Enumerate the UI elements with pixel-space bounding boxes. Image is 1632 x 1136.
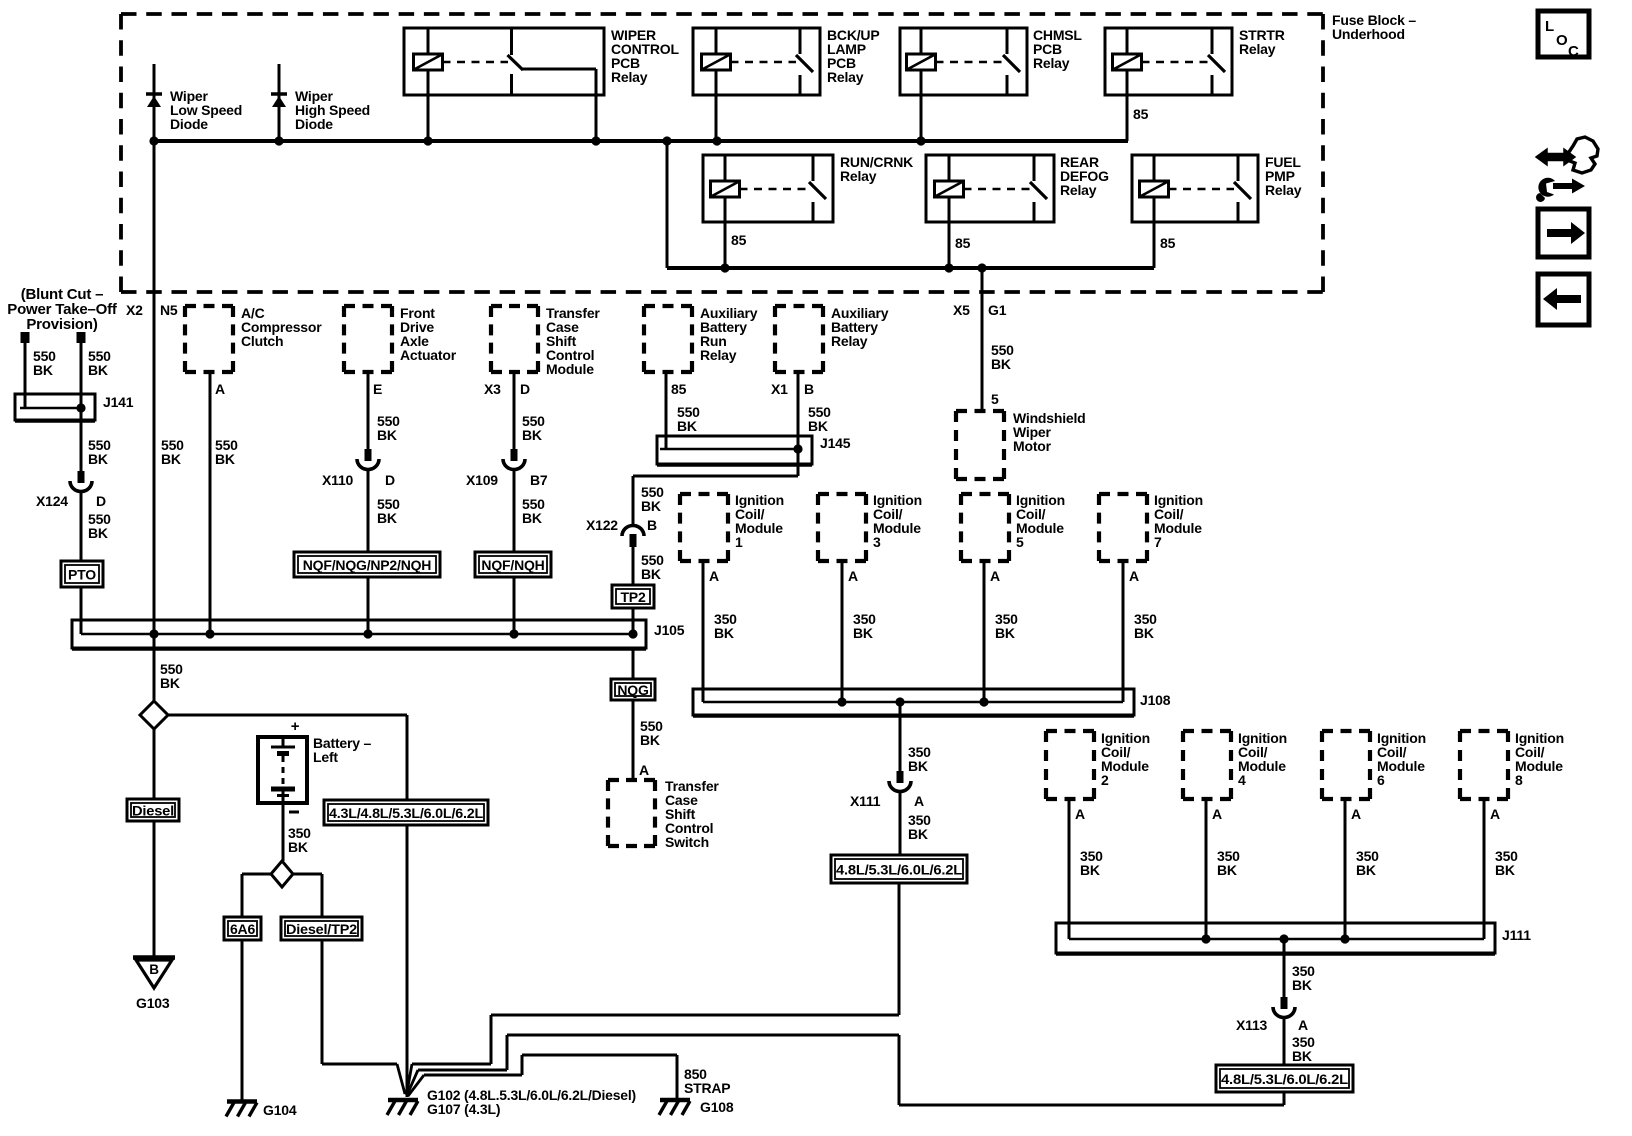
battery minus terminal label <box>289 811 299 814</box>
connector X110 pin D <box>365 449 372 461</box>
svg-text:A: A <box>1351 806 1361 822</box>
component: Ignition Coil/Module 3 (dashed) <box>818 492 866 496</box>
wire: battery to splice diamond <box>282 803 285 861</box>
svg-text:A: A <box>709 568 719 584</box>
relay RUN/CRNK: coil <box>724 155 727 182</box>
splice bus J108 <box>693 689 1134 715</box>
svg-text:STRAP: STRAP <box>684 1080 730 1096</box>
option box NQF/NQH <box>475 552 551 577</box>
junction dots on J105 <box>149 629 158 638</box>
relay FUEL PMP: coil <box>1153 155 1156 182</box>
svg-text:B7: B7 <box>530 472 548 488</box>
option box 6A6 <box>224 917 261 940</box>
wire: J108 output to X111 <box>899 702 902 771</box>
wire: wiper low speed diode drop x=154 <box>153 64 156 141</box>
wire: bck/up relay coil to bus <box>715 69 718 141</box>
svg-text:BK: BK <box>1356 862 1376 878</box>
svg-text:Actuator: Actuator <box>400 347 457 363</box>
junction dots second row bus <box>720 263 729 272</box>
icon: back arrow box <box>1538 274 1589 325</box>
option box Diesel <box>127 799 179 821</box>
wire: A/C clutch to J105 <box>209 372 212 634</box>
svg-text:Diesel/TP2: Diesel/TP2 <box>286 921 357 937</box>
component: Ignition Coil/Module 6 (dashed) <box>1322 729 1370 733</box>
relay REAR DEFOG: box <box>926 155 1054 222</box>
wire: aux battery relay through J145 <box>797 372 800 476</box>
svg-text:BK: BK <box>522 427 542 443</box>
svg-text:J105: J105 <box>654 622 685 638</box>
svg-text:6A6: 6A6 <box>230 921 255 937</box>
wire: wiper high speed diode drop x=279 <box>278 64 281 141</box>
blunt cut stub left <box>21 332 30 343</box>
svg-text:BK: BK <box>677 418 697 434</box>
svg-text:BK: BK <box>1217 862 1237 878</box>
svg-text:TP2: TP2 <box>620 589 645 605</box>
wire: wiper relay coil to bus <box>427 69 430 141</box>
wire: coil 4 to J111, 350 BK <box>1205 799 1208 939</box>
svg-text:2: 2 <box>1101 772 1109 788</box>
relay STRTR: box <box>1105 28 1232 95</box>
connector X124 pin D <box>78 471 85 483</box>
wire: NQF/NQH box to J105 <box>513 577 516 634</box>
component: Ignition Coil/Module 4 (dashed) <box>1183 729 1231 733</box>
wire: X124 to PTO option box <box>80 493 83 561</box>
svg-text:D: D <box>385 472 395 488</box>
wire: coil 6 to J111, 350 BK <box>1344 799 1347 939</box>
option box Diesel/TP2 <box>281 917 362 940</box>
svg-text:4.8L/5.3L/6.0L/6.2L: 4.8L/5.3L/6.0L/6.2L <box>836 862 963 878</box>
svg-text:BK: BK <box>88 451 108 467</box>
svg-text:D: D <box>96 493 106 509</box>
svg-text:A: A <box>215 381 225 397</box>
component: Ignition Coil/Module 5 (dashed) <box>961 492 1009 496</box>
option box 4.8L/5.3L/6.0L/6.2L (right) <box>1216 1065 1353 1092</box>
svg-text:BK: BK <box>641 566 661 582</box>
relay CHMSL PCB: box <box>900 28 1027 95</box>
relay REAR DEFOG: coil <box>948 155 951 182</box>
relay: WIPER CONTROL PCB Relay <box>404 28 604 95</box>
svg-text:Underhood: Underhood <box>1332 26 1405 42</box>
svg-text:BK: BK <box>88 362 108 378</box>
relay BCK/UP LAMP PCB: box <box>693 28 820 95</box>
wire: drop from main bus to second row bus <box>666 141 669 268</box>
wire: strtr relay coil pin 85 to bus <box>1126 69 1129 141</box>
svg-text:X111: X111 <box>850 793 881 809</box>
svg-text:Provision): Provision) <box>26 316 98 333</box>
svg-text:85: 85 <box>1160 235 1176 251</box>
svg-text:Motor: Motor <box>1013 438 1052 454</box>
svg-text:Relay: Relay <box>611 69 648 85</box>
component: Transfer Case Shift Control Module (dashed) <box>491 304 538 308</box>
svg-text:5: 5 <box>991 391 999 407</box>
svg-text:PTO: PTO <box>68 567 96 583</box>
svg-text:A: A <box>1212 806 1222 822</box>
svg-text:C: C <box>1568 43 1579 60</box>
svg-text:85: 85 <box>955 235 971 251</box>
wire: diamond to Diesel option box <box>153 729 156 799</box>
wire: chmsl relay coil to bus <box>920 69 923 141</box>
splice diamond on X2 branch <box>140 701 168 729</box>
option box NQF/NQG/NP2/NQH <box>294 552 440 577</box>
wire: J111 output to X113 <box>1283 939 1286 997</box>
component: Ignition Coil/Module 8 (dashed) <box>1460 729 1508 733</box>
relay REAR DEFOG: switch contact <box>1033 155 1036 181</box>
splice J145 <box>657 436 812 464</box>
relay BCK/UP LAMP PCB: dashed actuation link <box>731 61 797 64</box>
svg-text:6: 6 <box>1377 772 1385 788</box>
main ground bus inside fuse block y=141 <box>151 139 1128 143</box>
connector X111 pin A <box>897 771 904 783</box>
relay CHMSL PCB: dashed actuation link <box>936 61 1004 64</box>
icon: pointing hand with arrows (adjust/see info) <box>1536 137 1598 202</box>
wire: run/crnk coil pin 85 to bus <box>724 196 727 268</box>
relay BCK/UP LAMP PCB: coil <box>715 28 718 55</box>
relay FUEL PMP: switch contact <box>1237 155 1240 181</box>
wire: coil 3 to J108, 350 BK <box>841 561 844 702</box>
relay RUN/CRNK: dashed actuation link <box>740 188 810 191</box>
svg-text:E: E <box>373 381 382 397</box>
wire: X110 to NQF/NQG/NP2/NQH option box <box>367 471 370 552</box>
wire: X5 G1 drop from second bus to wiper motor <box>981 268 984 411</box>
wire: engine box to G102 step (X111 branch) <box>898 883 901 1015</box>
svg-text:BK: BK <box>808 418 828 434</box>
svg-text:Module: Module <box>546 361 594 377</box>
svg-text:Relay: Relay <box>840 168 877 184</box>
relay CHMSL PCB: switch contact <box>1006 28 1009 54</box>
svg-text:Relay: Relay <box>700 347 737 363</box>
svg-text:D: D <box>520 381 530 397</box>
wire: X111 to engine option box <box>899 793 902 855</box>
component: Ignition Coil/Module 1 (dashed) <box>680 492 728 496</box>
relay FUEL PMP: dashed actuation link <box>1169 188 1235 191</box>
connector X122 pin B (flipped) <box>622 526 644 537</box>
svg-text:G104: G104 <box>263 1102 297 1118</box>
svg-text:NQG: NQG <box>617 682 649 698</box>
wire: fuel pmp coil pin 85 to bus <box>1153 196 1156 268</box>
ground G102/G107 <box>388 1098 418 1103</box>
svg-text:Switch: Switch <box>665 834 709 850</box>
svg-text:Left: Left <box>313 749 338 765</box>
wire: diamond to Diesel/TP2 box <box>293 873 322 876</box>
wire: Diesel/TP2 to G102 <box>321 940 324 1064</box>
svg-text:J145: J145 <box>820 435 851 451</box>
wire: wiper relay switch output to bus <box>595 69 598 141</box>
svg-text:L: L <box>1545 18 1554 35</box>
wire: rear defog coil pin 85 to bus <box>948 196 951 268</box>
svg-text:N5: N5 <box>160 302 178 318</box>
svg-text:BK: BK <box>288 839 308 855</box>
svg-text:4.8L/5.3L/6.0L/6.2L: 4.8L/5.3L/6.0L/6.2L <box>1221 1071 1349 1087</box>
svg-text:J111: J111 <box>1502 927 1531 943</box>
svg-text:BK: BK <box>714 625 734 641</box>
svg-text:BK: BK <box>161 451 181 467</box>
connector X109 pin B7 <box>511 449 518 461</box>
svg-text:O: O <box>1556 32 1568 49</box>
svg-text:A: A <box>848 568 858 584</box>
svg-text:BK: BK <box>1495 862 1515 878</box>
svg-text:B: B <box>804 381 814 397</box>
svg-text:Clutch: Clutch <box>241 333 283 349</box>
relay STRTR: dashed actuation link <box>1142 61 1209 64</box>
splice bus J111 <box>1056 923 1495 953</box>
svg-text:BK: BK <box>377 510 397 526</box>
wire: coil 2 to J111, 350 BK <box>1068 799 1071 939</box>
svg-text:G107 (4.3L): G107 (4.3L) <box>427 1101 500 1117</box>
svg-text:B: B <box>647 517 657 533</box>
option box 4.8L/5.3L/6.0L/6.2L (left) <box>831 855 967 883</box>
wire: X109 to NQF/NQH option box <box>513 471 516 552</box>
svg-text:BK: BK <box>522 510 542 526</box>
svg-text:NQF/NQH: NQF/NQH <box>481 557 544 573</box>
svg-text:X5: X5 <box>953 302 970 318</box>
svg-text:G103: G103 <box>136 995 170 1011</box>
wire: aux battery run relay to J145 <box>665 372 668 449</box>
wire: 850 STRAP from G108 to G102 <box>676 1055 679 1100</box>
svg-text:Diesel: Diesel <box>132 803 174 819</box>
svg-text:BK: BK <box>853 625 873 641</box>
svg-text:4.3L/4.8L/5.3L/6.0L/6.2L: 4.3L/4.8L/5.3L/6.0L/6.2L <box>329 805 484 821</box>
junction dots on J111 <box>1201 934 1210 943</box>
svg-text:A: A <box>639 762 649 778</box>
svg-text:1: 1 <box>735 534 743 550</box>
diode: Wiper High Speed Diode <box>271 92 287 96</box>
wire: coil 7 to J108, 350 BK <box>1122 561 1125 702</box>
svg-text:A: A <box>1075 806 1085 822</box>
svg-text:A: A <box>914 793 924 809</box>
svg-text:3: 3 <box>873 534 881 550</box>
svg-text:NQF/NQG/NP2/NQH: NQF/NQG/NP2/NQH <box>303 557 432 573</box>
option box NQG <box>611 679 655 700</box>
blunt cut stub right <box>77 332 86 343</box>
svg-text:X113: X113 <box>1236 1017 1268 1033</box>
wire: PTO to J105 bus <box>80 587 83 634</box>
svg-text:A: A <box>1298 1017 1308 1033</box>
component: Front Drive Axle Actuator (dashed) <box>344 304 392 308</box>
option box TP2 <box>612 585 654 608</box>
svg-text:4: 4 <box>1238 772 1246 788</box>
option box PTO <box>61 561 103 587</box>
svg-text:85: 85 <box>731 232 747 248</box>
wire: option box to J105 <box>367 577 370 634</box>
component: Ignition Coil/Module 2 (dashed) <box>1046 729 1094 733</box>
component: A/C Compressor Clutch (dashed) <box>185 304 233 308</box>
second row ground bus y=268 <box>667 266 1154 270</box>
svg-text:BK: BK <box>33 362 53 378</box>
svg-text:B: B <box>149 962 159 977</box>
LOC page reference box <box>1538 11 1589 57</box>
svg-text:BK: BK <box>1080 862 1100 878</box>
wire: coil 8 to J111, 350 BK <box>1483 799 1486 939</box>
splice bus J105 <box>72 620 646 648</box>
svg-text:BK: BK <box>640 732 660 748</box>
ground G108 <box>660 1098 690 1103</box>
wire: 6A6 to G104 <box>241 940 244 1101</box>
relay STRTR: coil <box>1126 28 1129 55</box>
splice J141 <box>15 394 95 420</box>
svg-text:BK: BK <box>908 758 928 774</box>
ground G104 <box>227 1099 257 1104</box>
component: Windshield Wiper Motor (dashed) <box>956 409 1004 413</box>
svg-text:J108: J108 <box>1140 692 1171 708</box>
svg-text:A: A <box>990 568 1000 584</box>
fuse block underhood dashed enclosure <box>121 12 1323 16</box>
icon: forward arrow box <box>1538 209 1589 257</box>
svg-text:X3: X3 <box>484 381 501 397</box>
svg-text:J141: J141 <box>103 394 134 410</box>
wire: coil 5 to J108, 350 BK <box>983 561 986 702</box>
svg-text:X124: X124 <box>36 493 68 509</box>
relay REAR DEFOG: dashed actuation link <box>964 188 1031 191</box>
svg-text:+: + <box>291 718 300 735</box>
svg-text:BK: BK <box>215 451 235 467</box>
svg-text:A: A <box>1490 806 1500 822</box>
relay BCK/UP LAMP PCB: switch contact <box>799 28 802 54</box>
svg-text:X110: X110 <box>322 472 354 488</box>
svg-text:A: A <box>1129 568 1139 584</box>
wire: right engine box to G102 steps (X113 branch) <box>1283 1092 1286 1105</box>
wire: X2/N5 main 550 BK drop x=154 <box>153 141 156 701</box>
component: Auxiliary Battery Run Relay (dashed) <box>644 304 692 308</box>
svg-text:85: 85 <box>1133 106 1149 122</box>
relay RUN/CRNK: box <box>703 155 833 222</box>
relay CHMSL PCB: coil <box>920 28 923 55</box>
svg-text:X2: X2 <box>126 302 143 318</box>
svg-text:BK: BK <box>991 356 1011 372</box>
svg-text:Relay: Relay <box>831 333 868 349</box>
svg-text:Relay: Relay <box>1239 41 1276 57</box>
wire: tcase module to X109 <box>513 372 516 450</box>
option box 4.3L/4.8L/5.3L/6.0L/6.2L <box>324 800 488 825</box>
svg-text:85: 85 <box>671 381 687 397</box>
junction dots on J108 <box>837 697 846 706</box>
svg-text:Relay: Relay <box>827 69 864 85</box>
svg-text:BK: BK <box>160 675 180 691</box>
svg-text:X122: X122 <box>586 517 618 533</box>
svg-text:BK: BK <box>377 427 397 443</box>
svg-text:X1: X1 <box>771 381 788 397</box>
svg-text:Diode: Diode <box>295 116 333 132</box>
svg-text:G1: G1 <box>988 302 1007 318</box>
svg-text:BK: BK <box>995 625 1015 641</box>
svg-text:Relay: Relay <box>1060 182 1097 198</box>
svg-text:Relay: Relay <box>1033 55 1070 71</box>
wire: J145 output L-bend to X122 branch <box>633 475 798 478</box>
splice diamond battery ground branch <box>271 861 293 887</box>
ground G103 (triangle B) <box>133 955 175 960</box>
wire: diamond to 4.3L engine box branch <box>168 714 407 717</box>
wire: coil 1 to J108, 350 BK <box>702 561 705 702</box>
relay RUN/CRNK: switch contact <box>812 155 815 181</box>
relay FUEL PMP: box <box>1132 155 1258 222</box>
svg-text:Relay: Relay <box>1265 182 1302 198</box>
wire: axle actuator to X110 <box>367 372 370 450</box>
diode: Wiper Low Speed Diode <box>146 92 162 96</box>
component: Auxiliary Battery Relay (dashed) <box>775 304 823 308</box>
wire: J105 to NQG option box <box>632 648 635 679</box>
svg-text:7: 7 <box>1154 534 1162 550</box>
svg-text:BK: BK <box>641 498 661 514</box>
relay STRTR: switch contact <box>1211 28 1214 54</box>
svg-text:BK: BK <box>88 525 108 541</box>
component: Transfer Case Shift Control Switch (dashed) <box>608 778 655 782</box>
component: Ignition Coil/Module 7 (dashed) <box>1099 492 1147 496</box>
svg-text:BK: BK <box>1292 977 1312 993</box>
svg-text:BK: BK <box>1134 625 1154 641</box>
wire: X122 to TP2 option box <box>632 547 635 585</box>
svg-text:BK: BK <box>1292 1048 1312 1064</box>
wire: Diesel box to G103 <box>153 821 156 956</box>
junction dots on main bus <box>149 136 158 145</box>
wire: TP2 to J105 bus <box>632 608 635 634</box>
wire: diamond to 6A6 box <box>242 873 271 876</box>
svg-text:BK: BK <box>908 826 928 842</box>
wire: X113 to engine option box (right) <box>1283 1019 1286 1065</box>
wire: J141 to X124 <box>80 408 83 471</box>
connector X113 pin A <box>1281 997 1288 1009</box>
svg-text:G108: G108 <box>700 1099 734 1115</box>
svg-text:Diode: Diode <box>170 116 208 132</box>
svg-text:X109: X109 <box>466 472 498 488</box>
svg-text:8: 8 <box>1515 772 1523 788</box>
wire: NQG to transfer case switch <box>632 700 635 780</box>
svg-text:5: 5 <box>1016 534 1024 550</box>
